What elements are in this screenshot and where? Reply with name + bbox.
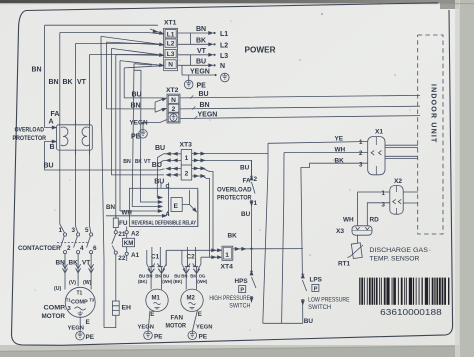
svg-text:BU: BU xyxy=(196,59,206,66)
XT1 right wires L1 L2 L3 N with arrows xyxy=(178,26,229,76)
svg-text:BU: BU xyxy=(199,91,209,98)
svg-text:FAN: FAN xyxy=(171,315,184,322)
earth symbol right of XT1 xyxy=(221,73,230,82)
terminal block XT2 xyxy=(166,87,180,123)
svg-text:X1: X1 xyxy=(375,129,383,136)
svg-text:SWITCH: SWITCH xyxy=(308,304,331,311)
svg-text:VT: VT xyxy=(144,159,151,165)
contactor KM poles xyxy=(18,218,97,254)
connector X2 xyxy=(382,178,404,214)
M2 wire labels xyxy=(173,274,208,285)
wire BK to XT1 L2 xyxy=(76,43,164,221)
svg-text:RD: RD xyxy=(370,217,380,224)
svg-text:BN: BN xyxy=(32,67,42,74)
svg-text:XT4: XT4 xyxy=(221,264,234,271)
XT4 left wires xyxy=(166,249,221,266)
terminal block XT1 xyxy=(164,20,178,71)
relay input row 5 with WH label xyxy=(106,210,166,218)
svg-text:L2: L2 xyxy=(167,41,175,48)
svg-text:P: P xyxy=(240,288,244,294)
svg-text:3: 3 xyxy=(382,201,386,208)
svg-text:WH: WH xyxy=(122,210,133,217)
wire VT to XT1 L3 xyxy=(90,54,164,221)
svg-text:4: 4 xyxy=(80,245,84,252)
XT3 left arrows and BU hooks xyxy=(157,152,181,199)
indoor unit dashed box xyxy=(418,35,443,234)
svg-text:1: 1 xyxy=(382,190,386,197)
svg-text:BN: BN xyxy=(200,102,210,109)
svg-text:BU: BU xyxy=(152,162,162,169)
M1 input wires with arrows xyxy=(147,247,166,290)
svg-text:BU: BU xyxy=(174,274,180,279)
column YE from X1 pin1 xyxy=(263,142,368,324)
svg-text:(WH): (WH) xyxy=(162,279,173,284)
contactor output wires BN BK VT xyxy=(56,254,94,290)
bottom bus wire xyxy=(263,322,303,324)
svg-text:BN: BN xyxy=(146,274,152,279)
M1 earth E YEGN PE xyxy=(138,311,164,341)
svg-text:1: 1 xyxy=(254,200,258,207)
svg-text:1: 1 xyxy=(185,155,189,162)
svg-text:L1: L1 xyxy=(220,31,228,38)
svg-text:(BK): (BK) xyxy=(138,279,148,284)
svg-text:BN: BN xyxy=(123,159,131,165)
svg-text:HPS: HPS xyxy=(235,278,249,285)
svg-text:(V): (V) xyxy=(69,280,76,286)
X1 right wires to indoor unit xyxy=(385,145,418,158)
relay coil E xyxy=(171,198,182,212)
svg-text:PE: PE xyxy=(197,83,207,90)
svg-text:22: 22 xyxy=(118,255,126,262)
svg-text:YEGN: YEGN xyxy=(138,324,154,330)
svg-text:PROTECTOR: PROTECTOR xyxy=(13,135,47,142)
svg-text:XT3: XT3 xyxy=(180,142,193,149)
svg-text:TEMP. SENSOR: TEMP. SENSOR xyxy=(369,255,419,262)
text DISCHARGE GAS TEMP. SENSOR xyxy=(369,247,428,262)
heater EH xyxy=(104,301,131,328)
svg-text:BN: BN xyxy=(196,26,206,33)
svg-text:BK: BK xyxy=(63,79,73,86)
svg-text:BU: BU xyxy=(154,179,164,186)
svg-text:L1: L1 xyxy=(167,31,175,38)
relay contact xyxy=(182,190,198,227)
svg-text:BN: BN xyxy=(106,204,115,211)
svg-text:FA: FA xyxy=(243,177,252,184)
svg-text:A: A xyxy=(166,212,170,218)
svg-text:BU: BU xyxy=(240,165,250,172)
connector X3 xyxy=(336,226,372,235)
svg-text:P: P xyxy=(314,286,318,292)
svg-text:FU: FU xyxy=(119,220,128,227)
svg-text:M1: M1 xyxy=(152,296,161,302)
svg-text:A2: A2 xyxy=(131,231,140,238)
svg-text:X3: X3 xyxy=(336,228,344,235)
wire B arrow / BU down xyxy=(45,140,165,170)
M2 input wires with arrows xyxy=(182,247,201,290)
high pressure switch HPS xyxy=(209,249,256,309)
svg-text:BK: BK xyxy=(196,38,206,45)
svg-text:RT1: RT1 xyxy=(338,261,351,268)
svg-text:BK: BK xyxy=(135,159,142,165)
svg-text:LPS: LPS xyxy=(310,277,323,284)
svg-text:XT2: XT2 xyxy=(166,87,179,94)
svg-text:2: 2 xyxy=(359,150,363,157)
svg-text:BK: BK xyxy=(335,158,345,165)
column BK from X1 pin3 xyxy=(301,163,368,248)
svg-text:COMP: COMP xyxy=(71,300,88,306)
svg-text:BK: BK xyxy=(155,274,162,279)
svg-text:VT: VT xyxy=(77,79,87,86)
svg-text:BU: BU xyxy=(241,211,251,218)
svg-text:CONTACTOER: CONTACTOER xyxy=(18,245,61,252)
wire XT2 "2" feed xyxy=(107,99,167,113)
svg-text:BN: BN xyxy=(131,102,141,109)
X2 right wires to indoor unit xyxy=(403,192,418,203)
text FAN MOTOR xyxy=(166,315,187,330)
XT2 right wires BU BN YEGN to indoor unit xyxy=(180,91,420,119)
svg-text:COMP.: COMP. xyxy=(44,305,67,312)
svg-text:BU: BU xyxy=(44,163,54,170)
svg-text:YEGN: YEGN xyxy=(68,326,84,332)
wire col106.5 diag to L2, down to XT2 "2" xyxy=(107,42,163,109)
svg-text:2: 2 xyxy=(172,106,176,113)
M1 wire labels xyxy=(138,274,173,285)
svg-text:1: 1 xyxy=(225,252,229,259)
svg-text:OVERLOAD: OVERLOAD xyxy=(217,186,252,193)
svg-text:M2: M2 xyxy=(187,296,196,302)
svg-text:MOTOR: MOTOR xyxy=(42,313,66,320)
svg-text:N: N xyxy=(171,97,176,104)
wire col134 from N to relay row xyxy=(132,64,162,208)
wire BN to XT1 L1 xyxy=(45,25,164,218)
comp motor earth E YEGN PE xyxy=(68,317,95,341)
svg-text:PE: PE xyxy=(86,334,95,341)
contactor coil KM with A2 A1 xyxy=(123,227,140,262)
svg-text:YEGN: YEGN xyxy=(196,325,212,331)
svg-text:A1: A1 xyxy=(131,252,140,259)
svg-text:E: E xyxy=(86,319,91,326)
svg-text:A: A xyxy=(49,119,54,126)
XT3 right arrows and wires xyxy=(192,152,268,257)
svg-text:VT: VT xyxy=(197,48,207,55)
svg-text:E: E xyxy=(198,311,202,318)
labels YE WH BK xyxy=(335,136,346,165)
connector X1 xyxy=(359,129,385,175)
YEGN PE earth under XT2 xyxy=(130,120,168,141)
svg-text:PROTECTOR: PROTECTOR xyxy=(217,195,252,202)
svg-text:BK: BK xyxy=(190,274,197,279)
svg-text:E: E xyxy=(150,311,154,318)
svg-text:(BK): (BK) xyxy=(173,279,183,284)
svg-text:(U): (U) xyxy=(54,286,61,292)
wire col141 to relay xyxy=(134,70,162,203)
svg-text:PE: PE xyxy=(154,334,163,341)
column WH from X1 pin2 xyxy=(282,153,368,324)
svg-text:2: 2 xyxy=(254,176,258,183)
thermistor RT1 xyxy=(338,235,363,267)
svg-text:BN: BN xyxy=(49,79,59,86)
svg-text:N: N xyxy=(220,63,225,70)
svg-text:63610000188: 63610000188 xyxy=(380,308,442,317)
svg-text:BN: BN xyxy=(181,274,187,279)
wire col101 diag to L2, down to EH xyxy=(101,36,163,327)
svg-text:X2: X2 xyxy=(394,178,402,185)
svg-text:HIGH PRESSURE: HIGH PRESSURE xyxy=(209,295,250,302)
svg-text:YE: YE xyxy=(335,136,344,143)
fuse FU xyxy=(113,216,128,231)
wire A arrow into overload xyxy=(45,120,56,129)
terminal XT4 xyxy=(221,246,234,270)
svg-text:REVERSAL DEFENSIBLE RELAY: REVERSAL DEFENSIBLE RELAY xyxy=(132,221,197,227)
svg-text:BU: BU xyxy=(155,145,165,152)
reversal defensible relay box xyxy=(129,188,197,226)
fan motor M1 xyxy=(146,289,168,311)
svg-text:YEGN: YEGN xyxy=(198,112,218,119)
svg-text:INDOOR UNIT: INDOOR UNIT xyxy=(430,84,437,143)
svg-text:2: 2 xyxy=(67,245,71,252)
wire col111.5 diag to L3, down to XT3 xyxy=(112,48,165,174)
svg-text:T1: T1 xyxy=(77,291,83,297)
svg-text:LOW PRESSURE: LOW PRESSURE xyxy=(308,296,350,303)
wire N to XT1 N xyxy=(120,61,164,211)
X2 left wires to X3 xyxy=(343,192,390,226)
svg-text:BK: BK xyxy=(228,233,238,240)
svg-text:PE: PE xyxy=(131,134,141,141)
svg-text:L3: L3 xyxy=(220,53,228,60)
svg-text:N: N xyxy=(168,62,173,69)
svg-text:FA: FA xyxy=(51,111,60,118)
svg-text:BU: BU xyxy=(139,274,145,279)
svg-text:MOTOR: MOTOR xyxy=(166,323,187,330)
svg-text:BU: BU xyxy=(132,91,142,98)
svg-text:L3: L3 xyxy=(167,51,175,58)
svg-text:XT1: XT1 xyxy=(164,20,177,27)
relay input row 4 xyxy=(120,210,162,213)
text OVERLOAD PROTECTOR xyxy=(13,127,47,143)
svg-text:OVERLOAD: OVERLOAD xyxy=(15,127,45,134)
svg-text:6: 6 xyxy=(93,245,97,252)
svg-text:T3: T3 xyxy=(89,298,95,303)
XT4 right wire to col303 with BK label xyxy=(228,233,304,251)
low pressure switch LPS xyxy=(301,249,349,325)
comp motor circle xyxy=(65,287,95,317)
wire col115.8 diag to L3, down to fuse FU xyxy=(116,55,163,218)
capacitor C1 xyxy=(149,254,163,267)
capacitor C2 xyxy=(185,254,198,267)
svg-text:PE: PE xyxy=(199,334,208,341)
svg-text:POWER: POWER xyxy=(245,46,276,55)
svg-text:OG: OG xyxy=(199,274,206,279)
labels (U)(V)(W) xyxy=(54,280,92,292)
terminal block XT3 xyxy=(180,142,193,181)
svg-text:3: 3 xyxy=(359,161,363,168)
svg-text:B: B xyxy=(50,144,55,151)
text COMP MOTOR xyxy=(42,305,67,321)
M2 earth E YEGN PE xyxy=(188,310,212,341)
svg-text:WH: WH xyxy=(343,217,354,224)
contact 21-22 xyxy=(112,231,126,301)
svg-text:E: E xyxy=(174,203,179,210)
overload protector left: box xyxy=(57,120,93,155)
barcode xyxy=(359,278,449,318)
svg-text:L2: L2 xyxy=(220,42,228,49)
svg-text:DISCHARGE GAS: DISCHARGE GAS xyxy=(369,247,428,254)
svg-text:(WH): (WH) xyxy=(197,279,208,284)
fan motor M2 xyxy=(181,289,203,311)
svg-text:YEGN: YEGN xyxy=(190,69,210,76)
overload protector (compressor) FA 2-1 xyxy=(217,160,258,248)
svg-text:WH: WH xyxy=(335,146,346,153)
relay internal vertical C-A xyxy=(161,183,170,218)
svg-text:EH: EH xyxy=(122,305,132,312)
svg-text:3: 3 xyxy=(72,227,76,234)
svg-text:KM: KM xyxy=(124,240,134,247)
svg-text:C: C xyxy=(166,184,170,190)
svg-text:BU: BU xyxy=(304,318,314,325)
svg-text:1: 1 xyxy=(359,139,363,146)
wire col124.2 diag to N, down to XT2 N xyxy=(124,66,166,101)
svg-text:(W): (W) xyxy=(83,280,92,286)
earth symbol PE under YEGN xyxy=(184,75,206,90)
svg-text:SWITCH: SWITCH xyxy=(229,302,250,309)
svg-text:5: 5 xyxy=(85,227,89,234)
svg-text:YEGN: YEGN xyxy=(130,120,148,127)
svg-text:BU: BU xyxy=(163,274,169,279)
svg-text:2: 2 xyxy=(185,170,189,177)
